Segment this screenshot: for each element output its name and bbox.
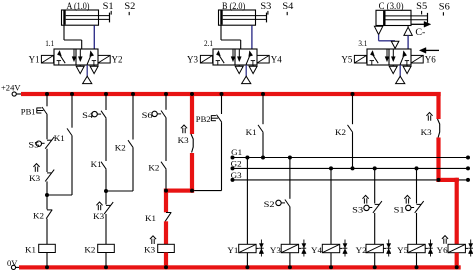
svg-text:S1: S1 (394, 204, 405, 214)
svg-text:Y3: Y3 (187, 56, 198, 66)
solenoid Y5 (354, 55, 366, 63)
exhaust port 5 valve 1.1 (76, 65, 84, 74)
wire (46, 96, 48, 106)
svg-text:K2: K2 (335, 127, 346, 137)
wire (289, 207, 291, 244)
energized wire (455, 253, 459, 267)
svg-text:K3: K3 (93, 211, 105, 221)
solenoid coil Y1 (239, 244, 256, 252)
cylinder B (2.0) (219, 10, 267, 25)
sensor tick S4 (286, 12, 288, 15)
junction on +24V bus column 6 (190, 92, 194, 96)
junction on +24V bus column 7 (220, 92, 224, 96)
suppressor diode Y2 (383, 240, 391, 257)
svg-text:K1: K1 (246, 127, 257, 137)
suppressor diode Y1 (256, 240, 264, 257)
energized wire junction to K1 contact (164, 189, 194, 213)
push button PB2 (211, 115, 221, 123)
G3 junction dots (231, 178, 471, 182)
energized wire (190, 153, 194, 193)
wire (46, 181, 48, 209)
actuation arrow into valve 3.1 (419, 48, 439, 54)
wire G1 to Y1 (246, 158, 248, 245)
actuated marker K3 col6 (181, 125, 187, 133)
net G2 (233, 167, 469, 169)
wire cylinder A left port to valve port 4 (64, 25, 82, 49)
wire (46, 115, 48, 140)
wire (105, 253, 107, 266)
contact K3 (NC opened, actuated) (104, 202, 113, 214)
svg-text:K2: K2 (84, 245, 95, 255)
G1 junction dots (231, 156, 471, 160)
wire (416, 253, 418, 266)
cylinder C (3.0) (376, 10, 428, 25)
solenoid Y4 (257, 55, 269, 63)
valve 1.1 (5/2 way) (54, 49, 98, 65)
svg-text:S4: S4 (282, 2, 293, 12)
svg-text:K3: K3 (178, 135, 190, 145)
suppressor diode Y3 (299, 240, 307, 257)
wire (289, 253, 291, 266)
contact K2 (NO open) col5 (161, 162, 166, 170)
contact K1 (NO open) (101, 162, 106, 170)
svg-text:Y1: Y1 (227, 245, 238, 255)
svg-text:S3: S3 (260, 2, 271, 12)
wire (221, 96, 223, 114)
+24V terminal (12, 92, 21, 96)
svg-text:A (1.0): A (1.0) (67, 1, 90, 12)
wire (262, 132, 264, 157)
wire (105, 169, 107, 204)
svg-text:Y5: Y5 (341, 56, 352, 66)
junction node column1/column2 (45, 193, 49, 197)
svg-text:Y6: Y6 (425, 56, 436, 66)
wire (46, 253, 48, 266)
svg-text:K1: K1 (91, 159, 102, 169)
svg-text:K1: K1 (25, 245, 36, 255)
actuated marker S1 (404, 195, 410, 203)
wire (105, 118, 107, 161)
wire (165, 169, 167, 188)
junction on +24V bus column 2 (70, 92, 74, 96)
svg-text:Y6: Y6 (437, 245, 449, 255)
junction on 0V bus column 5 (164, 265, 168, 269)
wire G2 to S1 (416, 168, 418, 203)
actuated marker S3 (363, 195, 369, 203)
svg-text:K3: K3 (421, 127, 433, 137)
actuated marker Y6 (442, 236, 448, 244)
junction on 0V bus Y2 (373, 265, 377, 269)
wire (71, 96, 73, 128)
solenoid coil Y2 (366, 244, 383, 252)
contact K3 (opened, actuated) (45, 170, 54, 182)
svg-text:K3: K3 (29, 173, 41, 183)
svg-text:S2: S2 (264, 199, 275, 209)
svg-text:Y2: Y2 (356, 245, 367, 255)
contact K3 (NO closed, conducting) (191, 134, 193, 153)
exhaust port 5 valve 2.1 (235, 65, 243, 74)
actuated marker K3 coil (150, 236, 156, 244)
relay coil K2 (98, 244, 115, 252)
limit switch S2 (NO open) (276, 200, 290, 208)
wire (352, 132, 354, 168)
exhaust port 5 valve 3.1 (389, 65, 397, 74)
exhaust port 3 valve 1.1 (90, 65, 98, 74)
wire (194, 122, 221, 190)
sensor tick S3 (267, 11, 269, 15)
svg-text:2.1: 2.1 (204, 38, 213, 48)
0V bus (energized) (19, 265, 461, 269)
wire (47, 136, 72, 195)
svg-text:+24V: +24V (1, 83, 21, 93)
0V terminal (11, 265, 19, 269)
wire cylinder A right port to valve port 2 (pressurized) (93, 25, 95, 49)
junction on +24V bus column 8 (261, 92, 265, 96)
contact K2 (NO open) (128, 140, 133, 148)
svg-text:Y4: Y4 (311, 245, 323, 255)
wire (46, 149, 48, 172)
suppressor diode Y6 (465, 240, 473, 257)
limit switch S3 (NC opened, actuated) (364, 201, 382, 213)
contact K2 (NC closed) (46, 210, 52, 219)
solenoid Y2 (98, 55, 110, 63)
contact K3 (NO closed, conducting) col10 (438, 119, 440, 138)
solenoid Y6 (411, 55, 423, 63)
contact K1 (NO open) (67, 128, 72, 136)
junction on 0V bus Y1 (245, 265, 249, 269)
solenoid Y3 (200, 55, 212, 63)
blue tube from check valve to valve 3.1 port 4 (379, 35, 395, 41)
wire (165, 118, 167, 161)
relay coil K1 (39, 244, 56, 252)
wire (262, 96, 264, 124)
junction on +24V bus column 3 (104, 92, 108, 96)
svg-text:K2: K2 (33, 210, 44, 220)
pressure source valve 3.1 (396, 65, 405, 84)
contact K1 (NC closed, conducting) (165, 212, 171, 221)
net G3 (233, 179, 469, 181)
svg-text:PB2: PB2 (196, 114, 211, 124)
actuated marker K3 col10 (426, 113, 432, 121)
junction on 0V bus Y6 (455, 265, 459, 269)
wire (46, 219, 48, 245)
wire (246, 253, 248, 266)
check valve on cylinder C right port (404, 26, 412, 36)
suppressor diode Y4 (340, 240, 348, 257)
energized wire (190, 96, 194, 134)
svg-text:S4: S4 (82, 110, 94, 120)
svg-text:S1: S1 (103, 2, 114, 12)
svg-text:B (2.0): B (2.0) (222, 1, 245, 12)
relay coil K3 (energized) (158, 244, 175, 252)
junction node column5 (164, 189, 168, 193)
energized wire down to G3 (436, 138, 440, 183)
wire cylinder B left port to valve port 4 (221, 25, 241, 49)
contact K1 (NO open) to G1 (258, 125, 263, 132)
limit switch S5 (NC) (36, 137, 54, 149)
limit switch S6 (NO open) (152, 111, 166, 119)
svg-text:C (3.0): C (3.0) (379, 1, 404, 12)
junction on 0V bus column 1 (45, 265, 49, 269)
limit switch S1 (NC opened, actuated) (406, 201, 424, 213)
wire (165, 96, 167, 110)
contact K2 (NO open) to G2 (348, 125, 353, 132)
exhaust port 3 valve 3.1 (403, 65, 411, 74)
svg-text:K2: K2 (148, 162, 159, 172)
svg-text:C-: C- (415, 27, 425, 37)
svg-text:Y3: Y3 (270, 245, 282, 255)
svg-text:Y2: Y2 (112, 56, 123, 66)
junction on 0V bus Y5 (415, 265, 419, 269)
cylinder A (1.0) (62, 10, 110, 25)
junction on 0V bus column 3 (104, 265, 108, 269)
svg-text:3.1: 3.1 (358, 38, 367, 48)
solenoid coil Y3 (281, 244, 298, 252)
svg-text:Y4: Y4 (271, 56, 282, 66)
wire (105, 96, 107, 110)
wire (374, 253, 376, 266)
wire G1 to S2 (289, 158, 291, 199)
junction on +24V bus column 4 (131, 92, 135, 96)
svg-text:K2: K2 (115, 143, 126, 153)
exhaust port 3 valve 2.1 (249, 65, 257, 74)
sensor tick S1 (110, 11, 112, 15)
+24V bus (energized) (21, 92, 441, 96)
wire G2 to Y4 (330, 168, 332, 244)
motion arrow at cylinder C rod (412, 21, 431, 27)
svg-text:Y5: Y5 (397, 245, 409, 255)
svg-text:1.1: 1.1 (45, 38, 54, 48)
pressure source valve 2.1 (242, 65, 251, 84)
solenoid Y1 (41, 55, 53, 63)
blue tube to valve 3.1 port 2 (pressurized) (407, 35, 409, 49)
wire (374, 213, 376, 244)
junction on +24V bus column 9 (351, 92, 355, 96)
valve 3.1 (5/2 way) (367, 49, 411, 65)
svg-text:K3: K3 (144, 245, 156, 255)
wire (352, 96, 354, 124)
suppressor diode Y5 (425, 240, 433, 257)
energized wire from +24V bus corner (436, 92, 440, 119)
svg-text:K1: K1 (145, 213, 156, 223)
svg-text:K1: K1 (54, 133, 65, 143)
svg-text:S2: S2 (124, 2, 135, 12)
net G1 (233, 157, 469, 159)
wire (330, 253, 332, 266)
wire (106, 148, 133, 191)
solenoid coil Y6 (448, 244, 465, 252)
G2 junction dots (231, 166, 471, 170)
wire (132, 96, 134, 140)
svg-text:Y1: Y1 (29, 56, 40, 66)
svg-text:S6: S6 (439, 3, 450, 13)
energized wire (164, 221, 168, 244)
junction on +24V bus column 1 (45, 92, 49, 96)
check valve above valve 3.1 port 4 (391, 41, 399, 49)
energized wire (164, 253, 168, 266)
pressure source valve 1.1 (83, 65, 92, 84)
svg-text:0V: 0V (7, 258, 18, 268)
junction on +24V bus column 5 (164, 92, 168, 96)
sensor tick S6 (442, 12, 444, 15)
check valve on cylinder C left port (374, 26, 382, 34)
junction node column3/column4 (104, 189, 108, 193)
energized wire G3 to Y6 (455, 178, 459, 245)
valve 2.1 (5/2 way) (213, 49, 257, 65)
wire (105, 214, 107, 244)
solenoid coil Y4 (322, 244, 339, 252)
wire (416, 213, 418, 244)
svg-text:S5: S5 (28, 140, 40, 150)
svg-text:S6: S6 (142, 110, 154, 120)
energized segment of G3 (436, 178, 458, 182)
limit switch S4 (NO open) (92, 111, 106, 119)
sensor tick S5 (421, 11, 423, 15)
svg-text:S3: S3 (352, 204, 364, 214)
actuated marker K3 col3 (96, 202, 102, 210)
solenoid coil Y5 (408, 244, 425, 252)
junction node PB2/K3 (190, 189, 194, 193)
sensor tick S2 (128, 12, 130, 15)
svg-text:PB1: PB1 (21, 106, 36, 116)
actuated marker K3 (33, 164, 39, 172)
junction on 0V bus Y3 (288, 265, 292, 269)
wire G2 to S3 (374, 168, 376, 203)
push button PB1 (37, 107, 47, 115)
junction on 0V bus Y4 (329, 265, 333, 269)
svg-text:S5: S5 (416, 2, 427, 12)
wire cylinder B right port to valve port 2 (pressurized) (251, 25, 253, 49)
svg-text:G1: G1 (231, 147, 242, 157)
